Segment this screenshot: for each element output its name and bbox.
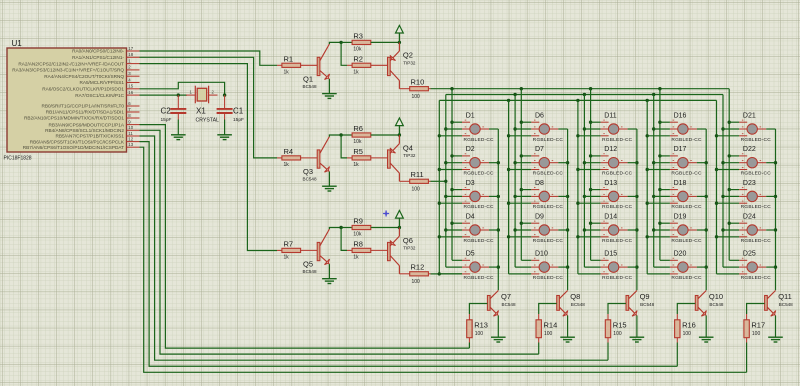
wire Q1 collector to node [329, 42, 341, 44]
R15 value label 100 [613, 331, 622, 337]
wire RB pin10 to R14 base (bottom bus 2) [140, 130, 539, 354]
node Q1 collector junction [339, 41, 342, 44]
svg-text:CRYSTAL: CRYSTAL [196, 118, 220, 124]
node col5 cathode rail row5 [774, 265, 777, 268]
D12 reference label [604, 146, 617, 153]
U1 pin 15 (RA6) [42, 84, 139, 92]
wire Q7 emitter to ground [497, 316, 499, 338]
svg-text:RGBLED-CC: RGBLED-CC [602, 171, 633, 177]
wire Q11 emitter to ground [775, 316, 777, 338]
transistor Q9 BC548 [626, 291, 637, 317]
transistor Q2 TIP32 [388, 42, 400, 88]
ground under Q5 [322, 279, 337, 284]
R8 reference label [353, 240, 363, 249]
U1 pin 8 (RB2) [24, 113, 140, 121]
svg-text:R16: R16 [682, 321, 696, 330]
U1 pin 10 (RB4) [45, 125, 139, 133]
node col4 green rail row2 [652, 161, 655, 164]
node col5 green rail row2 [721, 161, 724, 164]
node col3 red rail row4 [589, 222, 592, 225]
resistor R14 100 [536, 314, 541, 343]
svg-text:Q8: Q8 [570, 292, 580, 301]
svg-text:RA5/MCLR/VPP/SS1: RA5/MCLR/VPP/SS1 [79, 80, 124, 85]
C2 value label 15pF [161, 117, 172, 123]
wire column 2 blue rail [508, 100, 510, 274]
svg-text:RB6/AN5/CPS5/T1CKI/T1OSI/P1C/I: RB6/AN5/CPS5/T1CKI/T1OSI/P1C/ICSPCLK [30, 139, 125, 144]
Q9 value label BC548 [640, 302, 654, 307]
svg-text:17: 17 [128, 46, 133, 51]
node col1 blue rail row2 [438, 168, 441, 171]
svg-text:RGBLED-CC: RGBLED-CC [602, 204, 633, 210]
svg-text:Q5: Q5 [303, 259, 313, 268]
node col1 cathode rail row5 [497, 265, 500, 268]
wire Q11 base to R17 [747, 304, 765, 315]
svg-text:C1: C1 [233, 107, 244, 116]
RGB LED D20 [647, 258, 706, 274]
svg-text:100: 100 [412, 279, 421, 285]
node col4 green rail row1 [652, 127, 655, 130]
node col4 cathode rail row4 [705, 228, 708, 231]
resistor R16 100 [675, 314, 680, 343]
node col2 cathode rail row2 [566, 161, 569, 164]
svg-text:RGBLED-CC: RGBLED-CC [464, 171, 495, 177]
R8 value label 1k [353, 255, 359, 261]
wire column 4 blue rail [646, 100, 648, 274]
wire Q9 base to R15 [608, 304, 626, 315]
svg-text:R17: R17 [751, 321, 765, 330]
svg-text:RGBLED-CC: RGBLED-CC [533, 238, 564, 244]
D15 reference label [604, 251, 617, 258]
RGB LED D12 [578, 154, 637, 170]
RGB LED D2 [439, 154, 498, 170]
svg-text:TIP32: TIP32 [403, 61, 416, 66]
R14 reference label [544, 321, 558, 330]
node col4 cathode rail row5 [705, 265, 708, 268]
svg-text:RB4/AN8/CPS8/SCL1/SCK1/MDCIN2: RB4/AN8/CPS8/SCL1/SCK1/MDCIN2 [45, 128, 124, 133]
Q7 value label BC548 [502, 302, 516, 307]
node col2 red rail row4 [520, 222, 523, 225]
node col4 green rail row4 [652, 228, 655, 231]
wire Q8 base to R14 [539, 304, 557, 315]
resistor R4 1k [277, 156, 317, 160]
resistor R3 10k [341, 40, 399, 44]
svg-text:R11: R11 [411, 170, 424, 179]
node blue bus tap column 2 [507, 99, 510, 102]
RGB LED D9 [509, 221, 568, 237]
wire column 5 cathode rail [775, 129, 777, 290]
node red bus tap column 4 [658, 87, 661, 90]
RGB LED D10 [509, 258, 568, 274]
Q6 value label TIP32 [403, 246, 416, 251]
node Q5 collector junction [339, 226, 342, 229]
svg-text:1k: 1k [353, 255, 359, 261]
svg-text:D9: D9 [535, 213, 544, 220]
node col4 cathode rail row3 [705, 195, 708, 198]
node col3 cathode rail row2 [635, 161, 638, 164]
R11 reference label [411, 170, 424, 179]
transistor Q8 BC548 [557, 291, 568, 317]
D4 value label RGBLED-CC [464, 238, 495, 244]
svg-text:RGBLED-CC: RGBLED-CC [741, 137, 772, 143]
D15 value label RGBLED-CC [602, 275, 633, 281]
svg-text:18: 18 [128, 52, 133, 57]
svg-text:D16: D16 [674, 112, 687, 119]
wire Q10 base to R16 [677, 304, 695, 315]
svg-text:100: 100 [683, 331, 692, 337]
crystal X1 [186, 86, 218, 104]
svg-text:RGBLED-CC: RGBLED-CC [602, 238, 633, 244]
D19 value label RGBLED-CC [671, 238, 702, 244]
R5 value label 1k [353, 162, 359, 168]
wire RA7 pin16 to crystal pin1 [140, 94, 188, 96]
wire red bus (R10 row) [431, 88, 730, 90]
resistor R13 100 [467, 314, 472, 343]
R4 reference label [284, 147, 294, 156]
svg-text:1k: 1k [284, 70, 290, 76]
node col1 green rail row2 [444, 161, 447, 164]
D14 value label RGBLED-CC [602, 238, 633, 244]
D20 value label RGBLED-CC [671, 275, 702, 281]
wire green bus (R11 row) [446, 94, 723, 96]
node red bus tap column 3 [589, 87, 592, 90]
Q5 value label BC548 [303, 269, 317, 274]
svg-text:Q1: Q1 [303, 74, 313, 83]
C2 reference label [161, 107, 172, 116]
svg-text:11: 11 [128, 131, 133, 136]
R3 value label 10k [353, 47, 362, 53]
node col1 green rail row3 [444, 195, 447, 198]
svg-text:D10: D10 [535, 251, 548, 258]
Q11 value label BC548 [779, 302, 793, 307]
svg-text:RGBLED-CC: RGBLED-CC [533, 137, 564, 143]
svg-text:1k: 1k [284, 255, 290, 261]
wire RB pin11 to R15 base (bottom bus 3) [140, 136, 609, 360]
wire column 2 cathode to Q8 collector [567, 289, 569, 291]
svg-text:1k: 1k [284, 162, 290, 168]
svg-text:TIP32: TIP32 [403, 153, 416, 158]
wire Q3 collector to node [329, 135, 341, 137]
node col4 green rail row3 [652, 195, 655, 198]
wire Q8 emitter to ground [567, 316, 569, 338]
R2 value label 1k [353, 70, 359, 76]
svg-text:1k: 1k [353, 162, 359, 168]
ground under Q9 [630, 337, 645, 342]
D10 value label RGBLED-CC [533, 275, 564, 281]
transistor Q4 TIP32 [388, 135, 400, 181]
D2 value label RGBLED-CC [464, 171, 495, 177]
svg-text:Q10: Q10 [709, 292, 723, 301]
C1 value label 15pF [233, 117, 244, 123]
wire RB pin9 to R13 base (bottom bus 1) [140, 125, 470, 349]
node col2 red rail row1 [520, 121, 523, 124]
node OSC1 junction [177, 93, 180, 96]
D25 value label RGBLED-CC [741, 275, 772, 281]
IC U1 PIC16F1828 body [7, 48, 127, 152]
svg-text:100: 100 [613, 331, 622, 337]
D16 value label RGBLED-CC [671, 137, 702, 143]
D24 value label RGBLED-CC [741, 238, 772, 244]
svg-text:RGBLED-CC: RGBLED-CC [671, 204, 702, 210]
D1 value label RGBLED-CC [464, 137, 495, 143]
svg-text:R14: R14 [544, 321, 558, 330]
svg-text:100: 100 [412, 94, 421, 100]
node green bus tap column 2 [513, 93, 516, 96]
node col2 blue rail row1 [507, 134, 510, 137]
svg-text:X1: X1 [196, 107, 206, 116]
resistor R12 100 [399, 272, 430, 276]
svg-text:Q4: Q4 [403, 143, 413, 152]
node R12 junction [438, 272, 441, 275]
wire column 4 red rail [659, 89, 661, 261]
R1 reference label [284, 55, 294, 64]
RGB LED D13 [578, 188, 637, 204]
node col1 red rail row4 [450, 222, 453, 225]
wire node down to R5 [341, 135, 347, 158]
X1 pin 2 number [212, 89, 215, 94]
node col5 green rail row1 [721, 127, 724, 130]
svg-text:D7: D7 [535, 146, 544, 153]
node col2 red rail row3 [520, 188, 523, 191]
D25 reference label [743, 251, 756, 258]
node col2 green rail row1 [513, 127, 516, 130]
Q1 value label BC548 [303, 84, 317, 89]
node col3 blue rail row4 [576, 235, 579, 238]
resistor R10 100 [399, 87, 430, 91]
svg-text:R7: R7 [284, 240, 294, 249]
X1 value label CRYSTAL [196, 118, 220, 124]
node col3 green rail row4 [583, 228, 586, 231]
svg-text:Q3: Q3 [303, 167, 313, 176]
D24 reference label [743, 213, 756, 220]
node col4 red rail row1 [658, 121, 661, 124]
svg-text:100: 100 [475, 331, 484, 337]
ground under Q7 [491, 337, 506, 342]
node col3 green rail row2 [583, 161, 586, 164]
node red bus tap column 1 [450, 87, 453, 90]
U1 pin 9 (RB3) [48, 119, 139, 127]
node col4 red rail row4 [658, 222, 661, 225]
D5 value label RGBLED-CC [464, 275, 495, 281]
node col5 red rail row3 [728, 188, 731, 191]
wire Q5 emitter to ground [328, 264, 330, 279]
Q4 value label TIP32 [403, 153, 416, 158]
wire RB pin12 to R16 base (bottom bus 4) [140, 142, 678, 367]
svg-text:R3: R3 [353, 32, 363, 41]
node col2 blue rail row2 [507, 168, 510, 171]
D13 reference label [604, 180, 617, 187]
transistor Q1 BC548 [317, 44, 329, 80]
svg-text:100: 100 [752, 331, 761, 337]
Q4 reference label [403, 143, 413, 152]
U1 pin 2 (RA3) [12, 65, 139, 73]
wire column 4 cathode rail [705, 129, 707, 290]
U1 pin 1 (RA2) [18, 58, 139, 66]
svg-text:RB7/AN6/CPS6/T1OSO/P1D/MDCIN1/: RB7/AN6/CPS6/T1OSO/P1D/MDCIN1/ICSPDAT [23, 145, 124, 150]
node col3 cathode rail row4 [635, 228, 638, 231]
wire R12 to blue rail and D5 [431, 273, 463, 275]
svg-text:U1: U1 [12, 39, 23, 48]
power arrow above Q2 [396, 25, 404, 42]
U1 reference label [12, 39, 23, 48]
R9 reference label [353, 217, 363, 226]
D16 reference label [674, 112, 687, 119]
svg-text:D25: D25 [743, 251, 756, 258]
svg-text:BC548: BC548 [709, 302, 723, 307]
node blue bus tap column 4 [646, 99, 649, 102]
wire Q3 emitter to ground [328, 172, 330, 187]
RGB LED D23 [717, 188, 776, 204]
svg-text:12: 12 [128, 136, 133, 141]
wire column 2 red rail [520, 89, 522, 261]
D10 reference label [535, 251, 548, 258]
node col5 blue rail row3 [715, 202, 718, 205]
RGB LED D6 [509, 120, 568, 136]
ground under Q1 [322, 94, 337, 99]
svg-text:RA0/AN0/CPS0/C12IN0-: RA0/AN0/CPS0/C12IN0- [72, 49, 124, 54]
wire C2 to ground [177, 120, 179, 135]
node col1 cathode rail row4 [497, 228, 500, 231]
resistor R9 10k [341, 225, 399, 229]
svg-text:D20: D20 [674, 251, 687, 258]
node col2 cathode rail row3 [566, 195, 569, 198]
Q5 reference label [303, 259, 313, 268]
D23 reference label [743, 180, 756, 187]
svg-text:BC548: BC548 [303, 84, 317, 89]
wire R14 to bottom bus [538, 343, 540, 355]
svg-text:BC548: BC548 [571, 302, 585, 307]
node col3 cathode rail row5 [635, 265, 638, 268]
capacitor C2 [170, 95, 186, 119]
transistor Q10 BC548 [695, 291, 706, 317]
wire Q9 emitter to ground [636, 316, 638, 338]
transistor Q5 BC548 [317, 229, 329, 265]
wire column 3 cathode rail [636, 129, 638, 290]
node col5 blue rail row4 [715, 235, 718, 238]
wire column 3 green rail [583, 95, 585, 268]
U1 pin 13 (RB7) [23, 142, 140, 150]
D4 reference label [466, 213, 475, 220]
svg-text:D18: D18 [674, 180, 687, 187]
svg-text:D14: D14 [604, 213, 617, 220]
R17 value label 100 [752, 331, 761, 337]
node col1 red rail row1 [450, 121, 453, 124]
node col5 green rail row4 [721, 228, 724, 231]
wire column 3 blue rail [577, 100, 579, 274]
svg-text:R12: R12 [411, 263, 425, 272]
svg-text:RGBLED-CC: RGBLED-CC [671, 171, 702, 177]
node col1 red rail row3 [450, 188, 453, 191]
node col1 blue rail row3 [438, 202, 441, 205]
ground under Q8 [560, 337, 575, 342]
wire column 5 red rail [728, 89, 730, 261]
svg-text:D3: D3 [466, 180, 475, 187]
C1 reference label [233, 107, 244, 116]
transistor Q7 BC548 [487, 291, 498, 317]
node col5 red rail row4 [728, 222, 731, 225]
Q1 reference label [303, 74, 313, 83]
U1 pin 6 (RB0) [42, 101, 140, 109]
wire column 2 cathode rail [567, 129, 569, 290]
R10 reference label [411, 78, 425, 87]
svg-text:RGBLED-CC: RGBLED-CC [464, 238, 495, 244]
svg-text:RA2/AN2/CPS2/C12IN2-/C12IN+/VR: RA2/AN2/CPS2/C12IN2-/C12IN+/VREF-/DACOUT [18, 61, 124, 66]
svg-text:100: 100 [412, 187, 421, 193]
D17 reference label [674, 146, 687, 153]
Q3 value label BC548 [303, 177, 317, 182]
ground under Q10 [699, 337, 714, 342]
RGB LED D22 [717, 154, 776, 170]
node col4 blue rail row2 [646, 168, 649, 171]
wire R13 to bottom bus [468, 343, 470, 349]
node col2 cathode rail row5 [566, 265, 569, 268]
svg-text:R5: R5 [353, 147, 363, 156]
R11 value label 100 [412, 187, 421, 193]
svg-text:RGBLED-CC: RGBLED-CC [602, 137, 633, 143]
Q6 reference label [403, 236, 413, 245]
wire column 5 green rail [722, 95, 724, 268]
wire Q5 collector to node [329, 228, 341, 230]
power arrow above Q4 [396, 118, 404, 135]
wire column 1 cathode rail [497, 129, 499, 290]
D9 reference label [535, 213, 544, 220]
wire RA6 pin15 loop over crystal [140, 82, 225, 95]
node col1 cathode rail row3 [497, 195, 500, 198]
R6 value label 10k [353, 139, 362, 145]
svg-text:RA7/OSC1/CLKIN/P1C: RA7/OSC1/CLKIN/P1C [75, 93, 124, 98]
Q8 reference label [570, 292, 580, 301]
svg-text:D6: D6 [535, 112, 544, 119]
U1 pin 18 (RA1) [72, 52, 139, 60]
svg-text:R4: R4 [284, 147, 294, 156]
resistor R11 100 [399, 179, 430, 183]
wire R15 to bottom bus [607, 343, 609, 361]
node R11 junction [444, 180, 447, 183]
R3 reference label [353, 32, 363, 41]
D7 reference label [535, 146, 544, 153]
D13 value label RGBLED-CC [602, 204, 633, 210]
R1 value label 1k [284, 70, 290, 76]
U1 value label PIC18F1828 [4, 156, 32, 162]
svg-text:BC548: BC548 [303, 177, 317, 182]
RGB LED D19 [647, 221, 706, 237]
svg-text:RB5/AN7/CPS7/P1B/TX/CK/SS1: RB5/AN7/CPS7/P1B/TX/CK/SS1 [55, 134, 124, 139]
node col5 blue rail row1 [715, 134, 718, 137]
node col5 red rail row2 [728, 154, 731, 157]
D8 reference label [535, 180, 544, 187]
R16 reference label [682, 321, 696, 330]
svg-text:D8: D8 [535, 180, 544, 187]
svg-text:15pF: 15pF [233, 117, 244, 123]
svg-text:C2: C2 [161, 107, 172, 116]
U1 pin 17 (RA0) [72, 46, 139, 54]
node col5 blue rail row2 [715, 168, 718, 171]
svg-text:D21: D21 [743, 112, 756, 119]
svg-text:RGBLED-CC: RGBLED-CC [464, 204, 495, 210]
RGB LED D3 [439, 188, 498, 204]
RGB LED D5 [439, 258, 498, 274]
U1 pin 16 (RA7) [75, 90, 139, 98]
svg-text:BC548: BC548 [640, 302, 654, 307]
D20 reference label [674, 251, 687, 258]
node col4 blue rail row3 [646, 202, 649, 205]
svg-text:D1: D1 [466, 112, 475, 119]
RGB LED D17 [647, 154, 706, 170]
svg-text:RGBLED-CC: RGBLED-CC [671, 275, 702, 281]
D17 value label RGBLED-CC [671, 171, 702, 177]
node Q2 emitter junction [398, 41, 401, 44]
svg-text:RA1/AN1/CPS1/C12IN1-: RA1/AN1/CPS1/C12IN1- [72, 55, 124, 60]
R7 reference label [284, 240, 294, 249]
